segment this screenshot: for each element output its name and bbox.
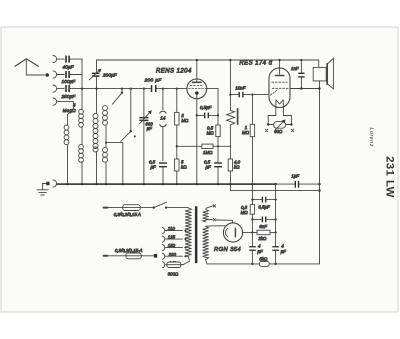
coil L1b on x=82 bbox=[79, 144, 84, 162]
node dots bottom wire bbox=[251, 263, 276, 265]
capacitor 8nF PSU bbox=[251, 217, 276, 223]
node dots ground bus bbox=[66, 183, 276, 185]
mains fuse line 2 bbox=[104, 253, 158, 259]
variable capacitor 14 (curved plates) bbox=[160, 89, 166, 161]
wire: grid leak chain x=218 bbox=[205, 88, 219, 184]
x heater terminal left bbox=[265, 129, 268, 132]
capacitor 200pF series bbox=[151, 85, 157, 92]
node dots top rail bbox=[196, 59, 303, 61]
label 1 MOhm bbox=[242, 125, 250, 135]
svg-text:0,3/0,2/0,15-A: 0,3/0,2/0,15-A bbox=[115, 248, 143, 253]
voltage selector jack 125 bbox=[162, 236, 182, 242]
transformer heater winding bbox=[203, 209, 209, 222]
svg-text:Lorenz: Lorenz bbox=[368, 127, 374, 146]
wire: cathode line x=196.6 bbox=[196, 99, 198, 185]
svg-text:1MΩ: 1MΩ bbox=[203, 150, 213, 155]
loudspeaker bbox=[313, 58, 333, 89]
svg-text:150: 150 bbox=[168, 243, 176, 248]
svg-text:110: 110 bbox=[168, 226, 176, 231]
svg-text:RGN 354: RGN 354 bbox=[214, 247, 241, 253]
wire: speaker return x=319.5 bbox=[207, 81, 321, 264]
svg-text:125: 125 bbox=[168, 235, 176, 240]
voltage selector jack 220 bbox=[162, 253, 182, 259]
label 5 kOhm bbox=[181, 160, 187, 170]
resistor 1 MOhm grid leak output tube bbox=[250, 95, 254, 200]
svg-text:14: 14 bbox=[160, 116, 166, 121]
capacitor 0,5uF (detector) bbox=[159, 162, 167, 184]
label 4,0 kOhm bbox=[234, 160, 241, 170]
svg-text:RES 174 d: RES 174 d bbox=[239, 60, 272, 66]
svg-text:MΩ: MΩ bbox=[181, 118, 189, 123]
wire: oscillator coil line x=106 bbox=[105, 125, 107, 184]
variable capacitor 660pF bbox=[139, 89, 151, 185]
svg-text:kΩ: kΩ bbox=[234, 165, 240, 170]
electrolytic 4uF second bbox=[272, 246, 279, 251]
capacitor 250uF bbox=[65, 85, 70, 92]
band switch pole 2 bbox=[121, 89, 136, 142]
node dots grid rail bbox=[81, 88, 178, 90]
coil L1a on x=82 bbox=[79, 109, 84, 127]
rectifier tube RGN 354 bbox=[223, 223, 242, 242]
svg-text:MegΩ: MegΩ bbox=[63, 108, 77, 113]
wire: grid rail y=88.6 bbox=[70, 88, 187, 90]
transformer core bbox=[195, 206, 198, 263]
svg-text:1µF: 1µF bbox=[291, 173, 299, 178]
label 0,5 MOhm bleeder bbox=[241, 205, 249, 215]
resistor 2 kOhm bbox=[257, 230, 270, 235]
wire: link to switch return x=122.8 bbox=[105, 142, 123, 185]
label 2 MOhm bbox=[180, 113, 189, 123]
label 0,5uF AF bbox=[204, 160, 211, 170]
capacitor 10nF bbox=[229, 92, 268, 98]
svg-text:40µF: 40µF bbox=[63, 65, 75, 71]
svg-text:8nF: 8nF bbox=[259, 224, 267, 229]
triode RENS 1204 bbox=[187, 60, 207, 99]
wire: tuned coil line x=96.5 bbox=[96, 89, 98, 185]
svg-text:0,5µF: 0,5µF bbox=[258, 205, 270, 210]
coil L4a bbox=[103, 106, 108, 126]
bus continuation through 1uF bbox=[276, 183, 320, 185]
capacitor 0,5uF cathode bbox=[197, 113, 218, 119]
heater tap A with x bbox=[206, 205, 216, 209]
jack socket 4 bbox=[53, 98, 74, 115]
capacitor 0,5uF PSU bbox=[251, 197, 276, 203]
fuse resistor 200 Ohm bbox=[167, 262, 181, 268]
svg-text:100µF: 100µF bbox=[62, 79, 77, 85]
transformer primary winding bbox=[181, 208, 192, 265]
svg-text:0,3/0,2/0,15 A: 0,3/0,2/0,15 A bbox=[114, 212, 141, 217]
svg-text:231 LW: 231 LW bbox=[384, 156, 396, 198]
svg-text:µF: µF bbox=[147, 126, 153, 131]
svg-text:0,5µF: 0,5µF bbox=[200, 105, 212, 110]
capacitor 0,5uF AF bbox=[214, 162, 222, 167]
wire: input bus x=82 bbox=[81, 59, 83, 184]
coil L4b bbox=[103, 147, 108, 162]
resistor 0,5 MOhm bleeder bbox=[250, 205, 254, 215]
svg-text:220: 220 bbox=[168, 252, 177, 257]
electrolytic 4uF first bbox=[249, 246, 256, 251]
output tube RES 174 d bbox=[269, 60, 290, 108]
svg-text:5kΩ: 5kΩ bbox=[259, 257, 268, 262]
voltage selector jack 240 bbox=[162, 262, 182, 268]
jack socket antenna 2 bbox=[53, 71, 64, 78]
coil L2 on x=67 bbox=[64, 125, 69, 145]
wire: smoothing line x=275.6 bbox=[275, 184, 277, 264]
resistor 0,5 MOhm (grid leak) bbox=[216, 125, 220, 137]
svg-text:µF: µF bbox=[257, 249, 263, 254]
heater tap B with x bbox=[206, 219, 216, 221]
coil L3 (tuning coil) bbox=[93, 114, 98, 153]
svg-text:250µF: 250µF bbox=[61, 94, 77, 100]
voltage selector jack 150 bbox=[162, 245, 182, 251]
wire: heater x to rectifier top bbox=[216, 220, 232, 223]
svg-text:MΩ: MΩ bbox=[241, 210, 249, 215]
wire: speaker secondary return y=190.6 bbox=[230, 190, 319, 192]
wire: top HT rail y=60 bbox=[97, 60, 319, 73]
label 4 MegOhm bbox=[63, 103, 77, 113]
capacitor 1nF bbox=[298, 60, 304, 89]
x heater terminal right bbox=[291, 129, 294, 132]
label 0,5 MOhm bbox=[207, 125, 215, 135]
wire: rectifier output y=232.4 bbox=[243, 231, 277, 233]
resistor 5 kOhm bleeder on bottom wire bbox=[259, 261, 269, 266]
jack socket antenna 1 bbox=[53, 56, 64, 63]
svg-text:MΩ: MΩ bbox=[242, 130, 250, 135]
heater rheostat 60 Ohm bbox=[267, 108, 293, 131]
capacitor 100uF bbox=[65, 71, 82, 78]
svg-text:2kΩ: 2kΩ bbox=[257, 236, 267, 241]
voltage selector jack 110 bbox=[162, 228, 182, 234]
wire: B+ feed x=252.4 PSU chain bbox=[251, 200, 253, 264]
resistor 4,0 kOhm bbox=[228, 146, 232, 190]
wire: AVC line y=146.3 bbox=[176, 145, 231, 147]
jack socket antenna 3 bbox=[53, 85, 64, 92]
wire: screen grid to speaker return y=88.5 bbox=[290, 87, 320, 89]
svg-text:kΩ: kΩ bbox=[181, 165, 187, 170]
wire: jack4 drop x=67 bbox=[67, 115, 69, 185]
label 4uF second bbox=[281, 244, 287, 254]
svg-text:200 µF: 200 µF bbox=[144, 78, 163, 84]
band switch pole 1 bbox=[112, 89, 123, 105]
capacitor 1uF in bus bbox=[295, 181, 300, 188]
label 4uF first bbox=[257, 244, 263, 254]
mains fuse line 1 bbox=[104, 205, 183, 211]
svg-text:µF: µF bbox=[281, 249, 287, 254]
potentiometer (zigzag) anode resistor bbox=[227, 60, 238, 146]
capacitor 40uF bbox=[65, 56, 82, 63]
label 660pF bbox=[145, 122, 153, 132]
ground jack and earth symbol bbox=[37, 180, 57, 195]
wire: trimmer to grid rail bbox=[96, 77, 98, 89]
svg-text:10nF: 10nF bbox=[235, 85, 245, 90]
resistor 2 MOhm bbox=[175, 89, 179, 159]
mains switch bbox=[153, 202, 167, 209]
label 0,5uF detector bbox=[149, 160, 156, 170]
svg-text:MΩ: MΩ bbox=[207, 130, 215, 135]
svg-text:200µF: 200µF bbox=[102, 72, 118, 78]
svg-text:RENS 1204: RENS 1204 bbox=[156, 68, 192, 74]
svg-text:1nF: 1nF bbox=[291, 66, 299, 71]
resistor 5 kOhm bbox=[175, 159, 179, 184]
svg-text:µF: µF bbox=[206, 165, 212, 170]
trimmer capacitor 200pF bbox=[89, 69, 101, 80]
resistor 1MOhm horizontal bbox=[202, 144, 213, 148]
svg-text:60Ω: 60Ω bbox=[274, 129, 283, 134]
antenna bbox=[15, 59, 49, 77]
chassis ground bus bbox=[57, 183, 276, 185]
svg-text:300Ω: 300Ω bbox=[168, 271, 179, 276]
transformer HV winding bbox=[203, 226, 227, 264]
svg-text:µF: µF bbox=[151, 165, 157, 170]
